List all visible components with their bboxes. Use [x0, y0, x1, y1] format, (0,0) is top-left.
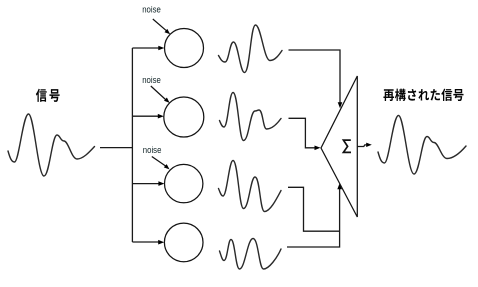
noise arrow 3	[152, 157, 166, 167]
wire: waveform1 to summer (top, down arrow)	[289, 50, 341, 104]
noisy waveform 2	[220, 93, 282, 141]
output waveform	[378, 116, 466, 175]
adder circle 2	[164, 97, 204, 137]
noisy waveform 3	[219, 161, 282, 212]
input waveform	[8, 114, 95, 176]
wire: waveform3 to summer	[288, 187, 340, 231]
wire: branch 1	[132, 47, 160, 49]
noisy waveform 4	[220, 239, 282, 270]
adder circle 4	[164, 223, 203, 262]
wire: branch 4	[132, 241, 160, 243]
wire: branch 2	[132, 115, 159, 117]
wire: waveform4 to summer (up arrow)	[287, 187, 340, 247]
svg-text:noise: noise	[142, 75, 161, 86]
wire: input to trunk	[100, 147, 132, 149]
noise arrow 1	[153, 19, 167, 31]
label 信号 (input signal)	[36, 89, 60, 102]
wire: trunk vertical	[131, 48, 133, 242]
wire: branch 3	[132, 183, 160, 185]
svg-text:noise: noise	[143, 145, 162, 156]
noise arrow 2	[151, 86, 166, 100]
sigma symbol	[343, 140, 351, 152]
svg-text:noise: noise	[142, 5, 161, 16]
summer funnel triangle	[321, 76, 357, 217]
adder circle 3	[165, 164, 203, 202]
wire: waveform2 to summer (left arrow)	[289, 118, 317, 148]
adder circle 1	[165, 29, 204, 68]
output arrow	[357, 145, 367, 147]
label 再構された信号 (reconstructed signal)	[383, 89, 463, 101]
noisy waveform 1	[219, 25, 283, 73]
